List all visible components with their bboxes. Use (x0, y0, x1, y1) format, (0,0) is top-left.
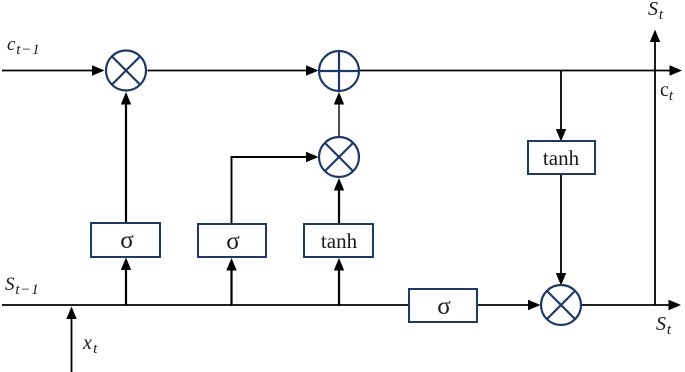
wire: bottom output line to S_t (582, 300, 681, 310)
multiply node 2 (circle with X) (319, 137, 359, 177)
wire: tanh1 output up into multiply2 (334, 178, 344, 224)
wire: branch down from top line to tanh box (556, 71, 566, 142)
wire: bottom line from sigma box to multiply (477, 300, 541, 310)
svg-text:ct: ct (660, 79, 674, 104)
svg-text:St: St (656, 313, 672, 338)
wire: sigma1 output up into multiply1 (121, 92, 131, 223)
gate box sigma3 (bottom) (409, 289, 477, 322)
multiply node 3 (circle with X) (541, 285, 581, 325)
wire: S_{t-1} bottom input line (2, 304, 409, 306)
gate box sigma1 (91, 223, 160, 257)
svg-text:σ: σ (120, 227, 134, 254)
wire: multiply2 output up into plus (334, 92, 344, 137)
add node (circle with plus) (319, 51, 359, 91)
wire: bottom line up into tanh1 (334, 258, 344, 305)
svg-text:tanh: tanh (321, 229, 358, 253)
svg-text:σ: σ (226, 228, 240, 255)
wire: tanh box down to bottom multiply (556, 175, 566, 286)
svg-text:ct−1: ct−1 (7, 34, 40, 58)
svg-text:tanh: tanh (543, 146, 580, 170)
svg-text:St−1: St−1 (5, 274, 40, 298)
wire: x_t input arrow (66, 307, 76, 372)
wire: sigma2 output elbow into multiply2 (232, 152, 319, 224)
svg-text:σ: σ (437, 293, 451, 320)
svg-text:St: St (648, 0, 664, 23)
gate box tanh2 (right) (528, 141, 595, 174)
gate box sigma2 (198, 224, 266, 257)
wire: c_{t-1} input line (2, 65, 105, 75)
wire: top line from plus to right edge (c_t output) (360, 65, 683, 75)
wire: top line between multiply and plus (148, 65, 319, 75)
wire: bottom line up into sigma1 (121, 258, 131, 306)
wire: bottom line up into sigma2 (226, 258, 236, 305)
wire: vertical recurrent line up to S_t top (650, 30, 660, 306)
svg-text:xt: xt (82, 332, 98, 357)
multiply node 1 (circle with X) (106, 51, 146, 91)
gate box tanh1 (304, 224, 373, 257)
